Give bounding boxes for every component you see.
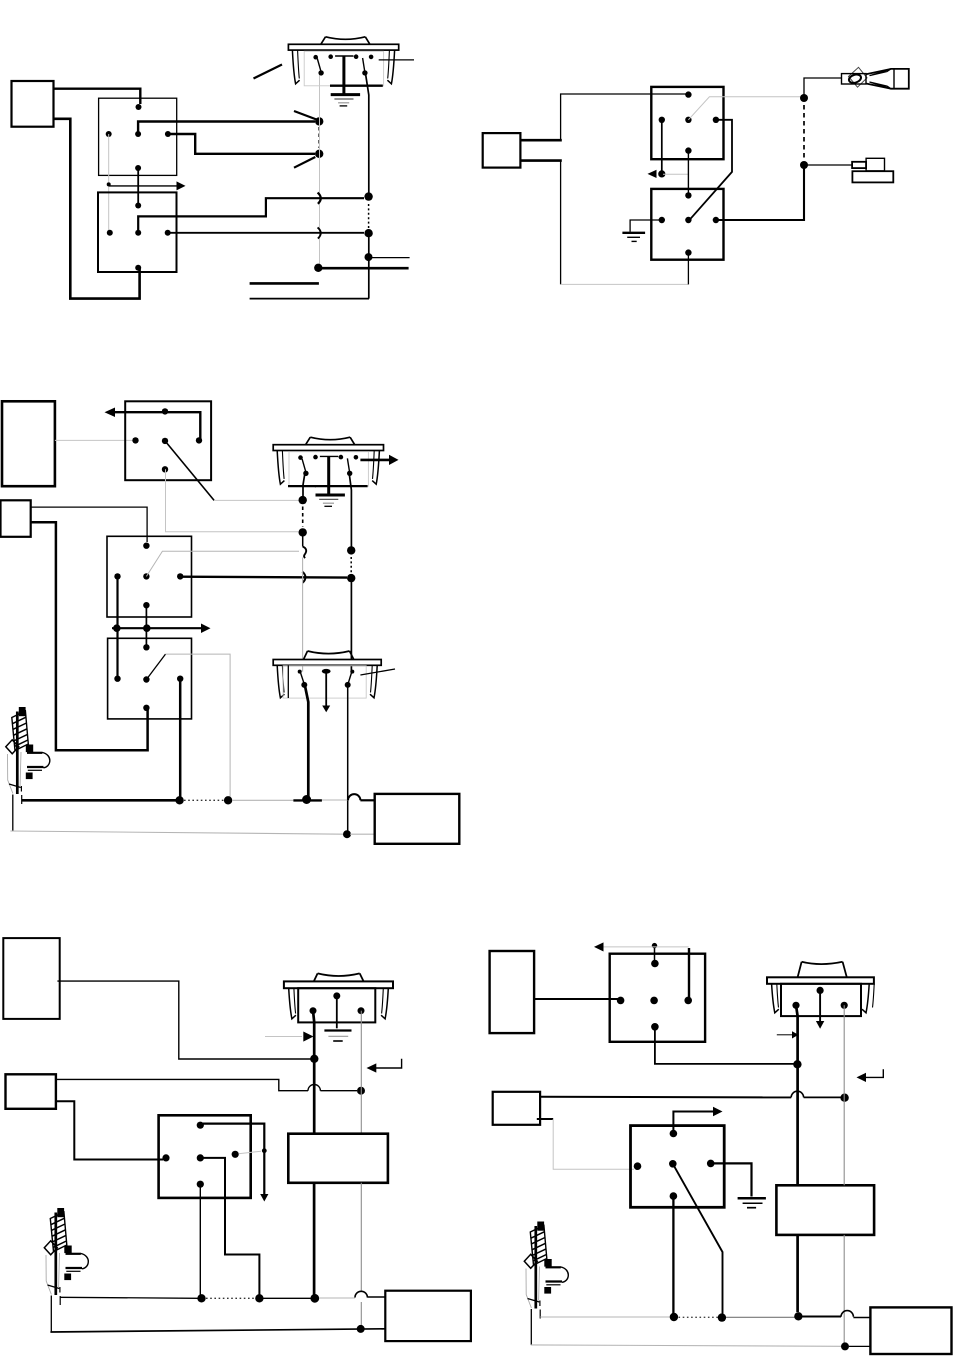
wire A4 to rocker node xyxy=(57,981,311,1059)
wire CN8 pin5 to rocker wire dot xyxy=(655,1027,794,1064)
dashed wire J6 to J7 xyxy=(803,105,805,159)
gray wire CN4 pin5 to J9 xyxy=(166,469,301,532)
CN8 pin 3 xyxy=(650,997,658,1005)
annotation line at SW3 xyxy=(360,669,395,675)
CN5 pin 3 xyxy=(143,573,149,579)
ground symbol xyxy=(622,233,645,242)
connector CN3b xyxy=(651,189,723,260)
bus hop xyxy=(841,1311,853,1317)
lower bus2 gray xyxy=(531,1345,841,1346)
wire up to CN3b bottom pin xyxy=(687,253,689,285)
gray wire to J8 xyxy=(214,499,300,501)
junction J9 xyxy=(299,528,307,536)
wire CDI A5c down to bus xyxy=(796,1235,799,1312)
wire A5b stub1 to hop xyxy=(540,1096,791,1099)
wire CN2 pin3 to junction J3 xyxy=(138,198,364,233)
wire A4b stub2 to CN7 pin2 xyxy=(56,1101,163,1159)
dashed wire J8 to J9 xyxy=(302,507,304,527)
connector CN4 xyxy=(125,401,211,480)
wire A3b to CN6 bottom pin xyxy=(31,522,148,750)
CN3b pin 4 xyxy=(713,217,719,223)
wire CN9 pin5 down to bus xyxy=(672,1196,674,1313)
connector CN7 xyxy=(159,1115,251,1198)
CDI box A4c xyxy=(288,1134,388,1183)
bus segment to box A5d xyxy=(853,1317,870,1319)
module box A3 xyxy=(2,401,55,486)
CN9 pin 4 xyxy=(707,1160,715,1168)
arrow between CN5 and CN6 xyxy=(112,624,211,634)
wire A1 to CN1 top pin xyxy=(54,89,141,104)
junction dot arrow mid xyxy=(143,624,151,632)
rocker switch SW5 xyxy=(767,962,874,1029)
wire CN7 pin5 to bus dot1 xyxy=(199,1184,201,1295)
bus2 segment to box A5d xyxy=(849,1345,870,1347)
annotation arrow right xyxy=(367,1059,402,1073)
module box A4 xyxy=(3,938,59,1019)
gray bus segment xyxy=(319,1297,355,1299)
bus wire segment from plug xyxy=(22,799,177,802)
gray wire SW5 right pin down xyxy=(843,1005,845,1185)
CN2 pin 3 xyxy=(135,230,141,236)
junction J3 xyxy=(364,192,372,200)
wire A5 to CN8 pin2 xyxy=(534,998,621,1000)
hop over vertical xyxy=(308,1085,320,1091)
spark plug P1 xyxy=(6,707,50,804)
wire rocker SW2 to J10 xyxy=(349,471,352,548)
CN3a pin 1 xyxy=(685,91,691,97)
bus segment E2 to E3 xyxy=(726,1316,795,1318)
spark plug P2 xyxy=(44,1208,88,1305)
annotation arrow above CN8 xyxy=(594,942,689,951)
gray bus segment xyxy=(232,799,300,801)
wire plug P2 down xyxy=(50,1296,52,1332)
module box A4d xyxy=(385,1291,471,1341)
CN7 pin 5 xyxy=(197,1181,204,1188)
wire from J5 right xyxy=(318,267,408,270)
CN2 pin 1 xyxy=(135,203,141,209)
wire SW5 left pin down to CDI xyxy=(796,1005,798,1185)
CN8 pin 2 xyxy=(617,997,625,1005)
module box A3b xyxy=(1,500,31,537)
gray bus segment to hop xyxy=(322,799,348,801)
CN3b pin 2 xyxy=(659,217,665,223)
CN4 pin 2 xyxy=(132,437,138,443)
CN3a pin 2 xyxy=(659,117,665,123)
gray wire down to SW3 left pin xyxy=(302,558,304,672)
rocker switch SW1 xyxy=(288,37,398,106)
CN4 pin 3 xyxy=(162,438,168,444)
wire A2 upper stub xyxy=(520,139,561,142)
connector slash at J2 xyxy=(294,157,315,168)
wire SW4 left pin down to CDI xyxy=(313,1011,314,1134)
wire CN3a pin4 diagonal to CN3b pin3 xyxy=(690,120,732,220)
wire CN5 pin5 to CN6 pin1 xyxy=(145,605,147,647)
wire J6 to key xyxy=(804,78,841,97)
junction J8 xyxy=(299,496,307,504)
junction J2 xyxy=(315,150,323,158)
bus junction E4 xyxy=(841,1342,849,1350)
CN3a pin 4 xyxy=(713,117,719,123)
bus segment to box A4d xyxy=(367,1296,385,1298)
CN6 pin 2 xyxy=(114,676,120,682)
CN2 pin 2 xyxy=(107,230,113,236)
CN6 pin 5 xyxy=(143,705,149,711)
bus segment to box xyxy=(360,799,374,801)
CN5 pin 2 xyxy=(114,573,120,579)
gray wire from arrow node xyxy=(663,173,688,175)
wire CN7 pin3 to bus dot2 xyxy=(200,1158,259,1295)
CN1 pin 5 xyxy=(135,165,141,171)
wire plug P1 down xyxy=(12,795,14,832)
junction J5 xyxy=(314,264,322,272)
gray wire CDI down to bus2 dot4 xyxy=(360,1183,362,1326)
bus segment E3 to hop xyxy=(803,1316,842,1318)
CN4 pin 5 xyxy=(162,466,168,472)
module box A5 xyxy=(490,951,534,1033)
junction dot on gray vertical xyxy=(357,1087,365,1095)
CN2 pin 5 xyxy=(135,265,141,271)
gray wire SW4 right pin down to CDI xyxy=(360,1011,362,1134)
wire J11 down to rocker SW3 right pin xyxy=(350,578,352,672)
annotation arrow left xyxy=(857,1069,884,1082)
wire CN3a pin5 to CN3b top pin xyxy=(687,151,689,196)
wire SW3 lower-right down to bus2 dot xyxy=(347,685,349,832)
wire small pin to CN8 pin1 xyxy=(654,946,656,964)
gray wire CN6 diagonal to bus xyxy=(166,654,231,798)
CN7 pin 2 xyxy=(162,1154,169,1161)
wire up to CN3a top pin xyxy=(561,94,689,140)
wire CN7 pin1 to down-arrow xyxy=(203,1124,264,1195)
wire CN1 pin3 to junction J1 xyxy=(138,122,315,135)
annotation arrow at SW4 wire xyxy=(265,1032,314,1042)
CN6 pin 3 xyxy=(143,676,149,682)
dotted bus segment xyxy=(184,799,224,801)
CN5 pin 5 xyxy=(143,602,149,608)
wire CN5 pin2 down to CN6 pin2 xyxy=(116,576,118,678)
bus junction E2 xyxy=(718,1313,726,1321)
module box A2 xyxy=(483,133,521,168)
bus junction B2 xyxy=(224,796,232,804)
crossover hook on J3 wire xyxy=(318,193,321,204)
connector CN2 xyxy=(98,192,177,272)
dotted wire J3 to J4 xyxy=(368,204,370,228)
CN9 pin 1 xyxy=(670,1130,678,1138)
junction D2 xyxy=(840,1094,848,1102)
hop over vertical wire xyxy=(791,1091,803,1097)
junction J10 xyxy=(347,546,355,554)
bus junction E1 xyxy=(670,1313,678,1321)
wire CN8 pin4 up xyxy=(688,948,690,1000)
arrowhead left xyxy=(648,170,657,178)
CN1 pin 1 xyxy=(136,104,142,110)
CN9 pin 2 xyxy=(634,1162,642,1170)
CN8 pin 5 xyxy=(651,1023,659,1031)
dotted bus segment xyxy=(679,1316,719,1318)
connector slash at J1 xyxy=(294,111,317,120)
stub wire lower xyxy=(250,298,369,300)
small dot on arrow wire xyxy=(262,1148,267,1153)
rocker switch SW3 xyxy=(273,651,381,712)
connector CN6 xyxy=(108,638,192,719)
rocker switch SW2 xyxy=(273,437,383,506)
SW2 body bottom edge extension xyxy=(288,485,316,487)
ground wire from CN3b pin2 xyxy=(630,220,662,232)
junction J11 xyxy=(347,574,355,582)
spark plug P3 xyxy=(524,1222,568,1319)
wire from J5b right xyxy=(369,257,410,259)
junction dot at arrow xyxy=(658,170,665,177)
module box A5d xyxy=(870,1307,951,1354)
wire rocker SW2 lower-left to J8 xyxy=(303,471,305,497)
CN6 pin 1 xyxy=(143,644,149,650)
crossover hook on J4 wire xyxy=(318,227,321,238)
dotted bus segment xyxy=(206,1297,255,1299)
lower gray bus xyxy=(10,831,344,834)
junction J7 xyxy=(800,161,808,169)
wire SW1 down main vertical xyxy=(366,74,369,299)
rocker switch SW4 xyxy=(284,973,393,1041)
dotted wire J10 to J11 xyxy=(350,557,352,573)
bus junction C4 xyxy=(357,1325,365,1333)
CN9 pin 3 xyxy=(669,1160,677,1168)
connector CN9 xyxy=(631,1126,725,1208)
CN4 pin 4 xyxy=(196,437,202,443)
wire J9 down with hook xyxy=(302,532,304,546)
connector CN3a xyxy=(651,87,723,159)
CN3b pin 5 xyxy=(685,249,691,255)
handlebar switch icon xyxy=(852,158,893,182)
wire CN4 pin1 to pin4 xyxy=(165,412,200,440)
gray wire rocker SW1 to junction J5 xyxy=(319,74,321,267)
bus segment xyxy=(264,1297,312,1299)
diagonal wire CN9 pin3 down xyxy=(673,1164,723,1314)
CN8 pin 1 xyxy=(651,960,659,968)
module box A3c xyxy=(375,794,460,844)
bus junction C1 xyxy=(197,1294,205,1302)
CN3b pin 3 xyxy=(685,217,691,223)
wire A2 lower stub xyxy=(520,159,561,162)
arrow from CN9 pin1 xyxy=(673,1107,722,1134)
wire CN1 pin5 to CN2 pin1 xyxy=(137,168,139,206)
down arrowhead xyxy=(260,1194,268,1202)
wire A3b to CN5 top pin xyxy=(31,507,147,542)
connector CN1 xyxy=(99,98,177,175)
CN8 pin 4 xyxy=(684,997,692,1005)
CN3a pin 3 xyxy=(685,117,691,123)
gray segment B4 to box xyxy=(350,833,375,835)
wire J7 to switch xyxy=(804,164,852,166)
wire CN1 pin4 to junction J2 xyxy=(168,134,315,154)
junction J1 xyxy=(315,117,323,125)
CN3a pin 5 xyxy=(685,147,691,153)
ground symbol xyxy=(738,1198,766,1207)
wire down left side xyxy=(560,161,562,285)
wire A5b stub2 xyxy=(537,1118,553,1120)
bus1 gray segment from plug xyxy=(540,1316,670,1318)
arrow from SW2 right xyxy=(360,455,398,465)
module box A5b xyxy=(493,1092,540,1125)
wire plug P3 down xyxy=(530,1309,532,1345)
gray wire CN1 pin2 to CN2 pin2 xyxy=(108,134,110,233)
wire CN3b pin4 to J7 xyxy=(716,165,804,220)
bus junction C3 xyxy=(310,1294,319,1303)
wire from SW1 right pin xyxy=(379,59,414,61)
wire CN9 pin4 to ground xyxy=(711,1163,752,1196)
wire CN3a pin2 down to arrow node xyxy=(661,120,663,174)
junction J6 xyxy=(800,94,808,102)
CN1 pin 3 xyxy=(135,131,141,137)
CN7 pin 3 xyxy=(197,1154,204,1161)
CN7 pin 1 xyxy=(197,1122,204,1129)
bus junction B3 xyxy=(302,795,311,804)
wire CN6 pin4 down to bus dot xyxy=(179,679,182,801)
lower bus2 xyxy=(50,1329,385,1332)
wire A1 to CN2 bottom pin xyxy=(54,119,140,299)
wire CN5 pin4 to J11 xyxy=(180,576,347,579)
arrow wire from CN4 pin1 left xyxy=(105,408,166,418)
bus junction B1 xyxy=(175,796,183,804)
gray link CN7 pin4 to arrow wire xyxy=(239,1151,262,1154)
CN5 pin 4 xyxy=(177,573,183,579)
junction J5b xyxy=(365,253,373,261)
gray diagonal CN5 pin3 xyxy=(146,551,299,576)
CN2 pin 4 xyxy=(165,230,171,236)
CDI box A5c xyxy=(776,1185,874,1235)
wire SW3 lower-left down to bus xyxy=(305,685,309,799)
crossover hook on that wire xyxy=(302,572,305,583)
CN5 pin 1 xyxy=(143,543,149,549)
dashed wire J1 to J2 xyxy=(318,127,320,148)
stub wire lower left xyxy=(250,282,319,285)
gray wire stub2 to CN9 pin2 xyxy=(553,1119,634,1169)
black bus segment at B3 xyxy=(293,799,322,801)
wire hop to dot xyxy=(320,1090,357,1092)
bus hop over wire xyxy=(348,794,360,800)
gray wire right down to bus2 xyxy=(843,1235,845,1343)
CN7 pin 4 xyxy=(232,1151,239,1158)
bus junction E3 xyxy=(794,1312,802,1320)
wire A4b stub1 to hop xyxy=(56,1079,308,1090)
connector CN8 xyxy=(610,954,705,1042)
bus1 segment from plug xyxy=(60,1297,198,1298)
wire hop to dot xyxy=(804,1096,841,1098)
tether key icon xyxy=(842,67,909,88)
diagonal CN6 pin3 xyxy=(146,654,165,679)
crossover hook vertical xyxy=(303,547,307,559)
CN3b pin 1 xyxy=(685,192,691,198)
junction dot arrow left xyxy=(113,624,121,632)
junction D1 xyxy=(793,1060,801,1068)
module box A4b xyxy=(6,1074,56,1109)
bus junction C2 xyxy=(255,1294,263,1302)
arrow between CN1 and CN2 xyxy=(107,181,186,190)
CN4 pin 1 xyxy=(162,408,168,414)
gray wire CN3a pin3 to J6 xyxy=(688,97,800,120)
bus hop over gray wire xyxy=(355,1291,367,1297)
small pin above CN8 xyxy=(652,943,657,948)
wire CDI down to bus dot3 xyxy=(313,1183,316,1295)
gray wire A3 to CN4 pin2 xyxy=(55,439,136,441)
CN1 pin 4 xyxy=(165,131,171,137)
CN6 pin 4 xyxy=(177,676,183,682)
CN9 pin 5 xyxy=(670,1192,678,1200)
gray bottom wire xyxy=(561,283,689,285)
diagonal wire CN4 pin3 xyxy=(165,441,214,501)
CN1 pin 2 xyxy=(106,131,112,137)
junction J4 xyxy=(364,229,372,237)
wire CN2 pin4 to junction J4 xyxy=(168,232,364,234)
connector CN5 xyxy=(107,536,192,617)
module box A1 xyxy=(12,81,54,127)
bus junction B4 xyxy=(343,830,351,838)
annotation line at SW1 xyxy=(254,65,283,79)
annotation arrow small xyxy=(777,1031,799,1038)
junction dot on SW4 left wire xyxy=(310,1055,318,1063)
